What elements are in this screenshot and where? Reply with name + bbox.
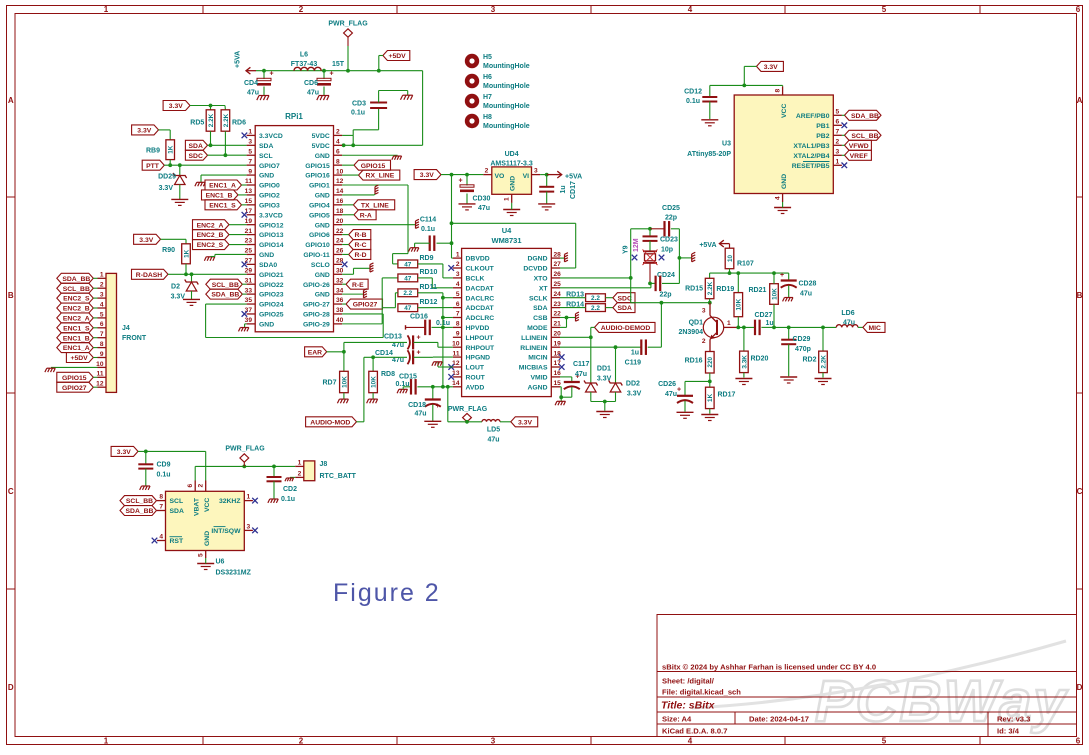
- RPi1 pin 8 GPIO15: [334, 164, 343, 166]
- zener diode DD2: [615, 347, 617, 383]
- capacitor CD26: [684, 381, 686, 395]
- resistor R107: [725, 248, 734, 269]
- svg-text:5: 5: [456, 291, 460, 298]
- RPi1 pin 39 GND: [247, 323, 256, 325]
- svg-text:GPIO23: GPIO23: [259, 292, 284, 299]
- U4 pin 3 BCLK: [453, 277, 462, 279]
- U4 pin 22 CSB: [551, 317, 560, 319]
- svg-text:MountingHole: MountingHole: [483, 123, 530, 130]
- J4 pin 5: [98, 317, 107, 319]
- svg-text:2N3904: 2N3904: [678, 329, 703, 336]
- svg-text:2: 2: [456, 261, 460, 268]
- resistor RD11: [398, 289, 418, 297]
- svg-text:H6: H6: [483, 74, 492, 81]
- svg-text:35: 35: [245, 297, 253, 304]
- svg-text:21: 21: [245, 228, 253, 235]
- svg-text:8: 8: [456, 321, 460, 328]
- svg-text:3: 3: [248, 139, 252, 146]
- global label PTT: [142, 160, 164, 170]
- svg-text:7: 7: [456, 311, 460, 318]
- svg-text:H7: H7: [483, 94, 492, 101]
- svg-text:LD6: LD6: [841, 310, 854, 317]
- svg-text:VCC: VCC: [781, 104, 788, 118]
- ground CD26: [677, 411, 694, 413]
- svg-text:SDA0: SDA0: [259, 262, 277, 269]
- svg-text:11: 11: [453, 350, 460, 357]
- svg-text:XTO: XTO: [534, 276, 548, 283]
- no-connect U4 pin17: [559, 364, 565, 370]
- global label ENC2_B: [193, 230, 230, 240]
- svg-text:2.2K: 2.2K: [707, 281, 714, 295]
- svg-text:GPIO4: GPIO4: [309, 202, 330, 209]
- RPi1 pin 19 GPIO12: [247, 224, 256, 226]
- svg-text:CLKOUT: CLKOUT: [466, 266, 495, 273]
- svg-text:RD5: RD5: [190, 120, 204, 127]
- U4 pin 18 MICIN: [551, 356, 560, 358]
- svg-text:0.1u: 0.1u: [421, 226, 435, 233]
- ground CD18: [424, 420, 441, 422]
- svg-text:1: 1: [836, 159, 840, 166]
- svg-text:2.2K: 2.2K: [208, 113, 215, 127]
- svg-text:34: 34: [336, 287, 344, 294]
- svg-text:GPIO25: GPIO25: [259, 312, 284, 319]
- global label +5DV (top): [383, 51, 410, 61]
- mounting hole H8: [465, 114, 479, 128]
- no-connect U3 RESET: [842, 163, 848, 169]
- svg-text:RD15: RD15: [685, 286, 703, 293]
- global label TX_LINE: [353, 200, 394, 210]
- svg-text:LHPOUT: LHPOUT: [466, 335, 495, 342]
- svg-text:30: 30: [336, 267, 344, 274]
- wire RLINEIN: [560, 346, 641, 348]
- svg-text:C119: C119: [625, 360, 641, 367]
- svg-text:3.3V: 3.3V: [518, 419, 532, 426]
- svg-text:AGND: AGND: [527, 384, 547, 391]
- svg-text:GPIO-11: GPIO-11: [303, 252, 330, 259]
- ground for D2: [183, 298, 200, 300]
- svg-text:MICBIAS: MICBIAS: [519, 365, 548, 372]
- svg-text:15: 15: [245, 198, 253, 205]
- connector RPi1 body: [255, 126, 333, 332]
- svg-text:HPGND: HPGND: [466, 355, 491, 362]
- U4 pin 9 LHPOUT: [453, 336, 462, 338]
- svg-text:RD6: RD6: [232, 120, 246, 127]
- RPi1 pin 23 GPIO14: [247, 244, 256, 246]
- svg-text:ENC2_S: ENC2_S: [63, 296, 90, 303]
- ground for RPi pin39: [245, 323, 247, 325]
- svg-text:PWR_FLAG: PWR_FLAG: [328, 21, 368, 28]
- wire RD6 to SCL: [224, 131, 226, 155]
- svg-text:SDA: SDA: [259, 143, 273, 150]
- wire XTO to RD15/QD1: [631, 302, 710, 304]
- U6 pin3 INT/SQW: [244, 529, 253, 531]
- svg-text:7: 7: [836, 129, 840, 136]
- capacitor CD3: [353, 129, 378, 131]
- svg-text:SCLO: SCLO: [311, 262, 330, 269]
- svg-text:GPIO24: GPIO24: [259, 302, 284, 309]
- mounting hole H6: [465, 74, 479, 88]
- J4 pin 9: [98, 357, 107, 359]
- wire 3.3V to VO: [441, 174, 483, 176]
- svg-text:R-B: R-B: [354, 232, 366, 239]
- svg-text:CD29: CD29: [793, 336, 811, 343]
- svg-text:5VDC: 5VDC: [312, 133, 330, 140]
- svg-text:R-D: R-D: [354, 252, 366, 259]
- svg-text:220: 220: [707, 356, 714, 367]
- svg-text:3: 3: [836, 149, 840, 156]
- svg-text:CD13: CD13: [384, 334, 402, 341]
- svg-text:RD9: RD9: [420, 255, 434, 262]
- svg-text:22p: 22p: [665, 215, 677, 222]
- svg-text:GPIO10: GPIO10: [305, 242, 330, 249]
- svg-text:4: 4: [456, 281, 460, 288]
- svg-text:47u: 47u: [247, 90, 259, 97]
- global label ENC1_S (J4): [57, 323, 94, 333]
- wire GPIO-28 pin38: [342, 313, 383, 315]
- svg-text:CD6: CD6: [304, 80, 318, 87]
- wire EAR node: [327, 351, 344, 353]
- svg-text:40: 40: [336, 317, 344, 324]
- svg-text:GND: GND: [315, 272, 330, 279]
- svg-text:+: +: [416, 349, 420, 356]
- RPi1 pin 28 SCLO: [334, 263, 343, 265]
- resistor RD17: [706, 387, 715, 408]
- wire audio line to MIC: [774, 326, 836, 328]
- svg-text:C117: C117: [573, 361, 589, 368]
- J4 pin 6: [98, 327, 107, 329]
- U4 pin 15 AGND: [551, 386, 560, 388]
- svg-text:26: 26: [554, 271, 562, 278]
- global label GPIO15 (J4): [57, 372, 94, 382]
- ground CD30: [459, 203, 476, 205]
- svg-text:12: 12: [452, 360, 460, 367]
- svg-text:1: 1: [104, 737, 109, 746]
- svg-text:U4: U4: [502, 226, 512, 235]
- U3 pin 3 XTAL2/PB4: [833, 154, 842, 156]
- zener diode DD29: [179, 165, 181, 175]
- U4 pin 16 VMID: [551, 376, 560, 378]
- svg-text:6: 6: [836, 119, 840, 126]
- svg-text:VMID: VMID: [531, 375, 548, 382]
- svg-text:GPIO0: GPIO0: [259, 183, 280, 190]
- mcu U3 body: [734, 95, 833, 194]
- U6 pin4 RST: [157, 540, 166, 542]
- power symbol +5VA (left arrow): [246, 70, 256, 72]
- svg-text:SDC: SDC: [189, 153, 203, 160]
- svg-text:GPIO16: GPIO16: [305, 173, 330, 180]
- U3 pin8 VCC: [782, 86, 784, 95]
- resistor RD5: [206, 110, 215, 131]
- svg-text:5: 5: [882, 5, 887, 14]
- svg-text:DACDAT: DACDAT: [466, 285, 495, 292]
- svg-text:1: 1: [727, 320, 731, 327]
- svg-text:20: 20: [554, 331, 562, 338]
- svg-text:+: +: [416, 335, 420, 342]
- svg-text:+5VA: +5VA: [699, 242, 716, 249]
- svg-text:GPIO15: GPIO15: [305, 163, 330, 170]
- svg-text:H8: H8: [483, 114, 492, 121]
- global label SCL_BB (U3): [845, 130, 882, 140]
- capacitor CD30: [466, 175, 468, 186]
- svg-text:VBAT: VBAT: [194, 497, 201, 516]
- svg-text:RD12: RD12: [420, 299, 438, 306]
- svg-text:6: 6: [336, 148, 340, 155]
- wire DCVDD feed: [452, 222, 576, 224]
- RPi1 pin 11 GPIO0: [247, 184, 256, 186]
- U4 pin 6 ADCDAT: [453, 307, 462, 309]
- svg-text:ENC1_B: ENC1_B: [206, 193, 233, 200]
- svg-text:3.3V: 3.3V: [117, 449, 131, 456]
- svg-text:11: 11: [245, 178, 252, 185]
- svg-text:GPIO5: GPIO5: [309, 212, 330, 219]
- global label MIC: [863, 322, 885, 332]
- svg-text:3: 3: [534, 168, 538, 175]
- svg-text:Y9: Y9: [623, 245, 630, 254]
- svg-text:15: 15: [554, 380, 562, 387]
- RPi1 pin 32 GPIO-26: [334, 283, 343, 285]
- svg-text:RD19: RD19: [716, 286, 734, 293]
- svg-text:10K: 10K: [341, 376, 348, 388]
- svg-text:GPIO15: GPIO15: [62, 375, 87, 382]
- svg-text:1: 1: [298, 459, 302, 466]
- svg-text:RD17: RD17: [718, 392, 736, 399]
- svg-text:GPIO13: GPIO13: [259, 232, 284, 239]
- svg-text:10: 10: [452, 340, 460, 347]
- global label EAR: [305, 347, 327, 357]
- global label AUDIO-DEMOD: [595, 322, 656, 332]
- svg-text:33: 33: [245, 287, 253, 294]
- svg-text:+: +: [329, 71, 333, 78]
- U4 pin 17 MICBIAS: [551, 366, 560, 368]
- svg-text:RD8: RD8: [381, 371, 395, 378]
- svg-text:QD1: QD1: [689, 320, 704, 327]
- svg-text:GND: GND: [781, 174, 788, 189]
- svg-text:47u: 47u: [843, 320, 855, 327]
- svg-text:29: 29: [245, 267, 253, 274]
- ground U3: [774, 207, 791, 209]
- svg-text:WM8731: WM8731: [491, 236, 521, 245]
- global label R-C: [349, 240, 371, 250]
- svg-text:D: D: [8, 683, 14, 692]
- no-connect pin17: [242, 212, 248, 218]
- capacitor CD28: [788, 273, 790, 280]
- ground RPi pin34: [342, 293, 363, 295]
- U3 pin 1 RESET/PB5: [833, 164, 842, 166]
- svg-text:XT: XT: [539, 285, 549, 292]
- svg-text:1: 1: [100, 272, 104, 279]
- wire 5V rail: [256, 70, 423, 72]
- U3 pin 6 PB1: [833, 124, 842, 126]
- global label GPIO27 (RPi): [346, 299, 383, 309]
- svg-text:CD9: CD9: [157, 462, 171, 469]
- svg-text:GPIO15: GPIO15: [361, 163, 386, 170]
- svg-text:15T: 15T: [332, 61, 345, 68]
- J4 pin 7: [98, 337, 107, 339]
- svg-text:47u: 47u: [392, 357, 404, 364]
- svg-text:AREF/PB0: AREF/PB0: [796, 113, 830, 120]
- RPi1 pin 20 GND: [334, 224, 343, 226]
- no-connect U6 RST: [152, 538, 158, 544]
- ground RD8: [372, 393, 374, 399]
- svg-text:24: 24: [336, 238, 344, 245]
- svg-text:CD17: CD17: [570, 181, 577, 199]
- mounting hole H5: [465, 54, 479, 68]
- svg-text:3.3V: 3.3V: [139, 237, 153, 244]
- capacitor CD17: [546, 175, 548, 187]
- svg-text:Title: sBitx: Title: sBitx: [661, 700, 716, 712]
- svg-text:1: 1: [456, 251, 460, 258]
- wire 3.3V to RB9: [159, 129, 171, 131]
- no-connect U4 pin18: [559, 354, 565, 360]
- wire AUDIO-DEMOD to LLINEIN: [591, 326, 595, 328]
- svg-text:6: 6: [1076, 5, 1081, 14]
- svg-text:12M: 12M: [633, 238, 640, 252]
- svg-text:R90: R90: [162, 247, 175, 254]
- ground for DD29: [171, 198, 188, 200]
- svg-text:2.2: 2.2: [591, 305, 600, 312]
- capacitor CD18: [432, 387, 434, 399]
- svg-text:DBVDD: DBVDD: [466, 256, 490, 263]
- U3 pin 2 XTAL1/PB3: [833, 144, 842, 146]
- wire RB9 to PTT net: [169, 160, 171, 166]
- svg-text:25: 25: [245, 248, 253, 255]
- svg-text:0.1u: 0.1u: [157, 472, 171, 479]
- ground CSB/MODE: [560, 317, 567, 319]
- svg-text:3.3V: 3.3V: [159, 185, 174, 192]
- wire 3.3V to R90: [161, 238, 187, 240]
- no-connect U6 32KHZ: [252, 498, 258, 504]
- svg-text:RPi1: RPi1: [285, 112, 303, 121]
- svg-text:13: 13: [452, 370, 460, 377]
- svg-text:GPIO12: GPIO12: [259, 222, 284, 229]
- svg-text:28: 28: [336, 258, 344, 265]
- transistor QD1 2N3904: [703, 317, 723, 337]
- svg-text:8: 8: [336, 158, 340, 165]
- svg-text:Rev: v3.3: Rev: v3.3: [997, 715, 1030, 724]
- global label ENC2_A (J4): [57, 313, 94, 323]
- svg-text:RHPOUT: RHPOUT: [466, 345, 496, 352]
- power label 3.3V (R90): [134, 234, 161, 244]
- audio codec U4 body: [462, 248, 552, 396]
- svg-text:CD26: CD26: [658, 381, 676, 388]
- inductor L6: [294, 67, 321, 70]
- global label RX_LINE: [359, 170, 400, 180]
- svg-text:32KHZ: 32KHZ: [219, 498, 241, 505]
- wire base node: [737, 317, 739, 328]
- svg-text:5: 5: [248, 148, 252, 155]
- J8 pin2: [295, 476, 304, 478]
- RPi1 pin 21 GPIO13: [247, 234, 256, 236]
- ground RPi pin20: [342, 224, 415, 226]
- svg-text:47: 47: [404, 305, 412, 312]
- svg-text:GND: GND: [510, 176, 517, 191]
- svg-text:GPIO3: GPIO3: [259, 202, 280, 209]
- capacitor C117: [560, 376, 572, 378]
- ground RD17: [709, 409, 711, 414]
- RPi1 pin 22 GPIO6: [334, 234, 343, 236]
- ground J8 pin2: [290, 476, 295, 478]
- svg-text:3: 3: [702, 308, 706, 315]
- resistor RD19: [734, 293, 743, 317]
- svg-text:22: 22: [336, 228, 344, 235]
- svg-text:1u: 1u: [560, 185, 567, 193]
- svg-text:SCL_BB: SCL_BB: [851, 133, 878, 140]
- ground UD4: [503, 209, 520, 211]
- svg-text:CD30: CD30: [473, 196, 491, 203]
- svg-text:8: 8: [775, 89, 782, 93]
- RPi1 pin 4 5VDC: [334, 144, 343, 146]
- svg-text:SDA_BB: SDA_BB: [211, 292, 239, 299]
- svg-text:CD18: CD18: [408, 402, 426, 409]
- power label 3.3V (RD5/RD6 pullups): [163, 101, 190, 111]
- svg-text:2: 2: [836, 139, 840, 146]
- junction: [322, 69, 326, 73]
- no-connect U4 pin13: [448, 374, 454, 380]
- no-connect pin27: [242, 262, 248, 268]
- ground RPi pin30: [342, 273, 353, 275]
- svg-text:Figure 2: Figure 2: [333, 579, 441, 607]
- svg-text:7: 7: [159, 504, 163, 511]
- svg-text:3: 3: [491, 5, 496, 14]
- global label ENC2_B (J4): [57, 303, 94, 313]
- ground RD7: [343, 393, 345, 399]
- svg-text:9: 9: [248, 168, 252, 175]
- svg-text:CD28: CD28: [799, 281, 817, 288]
- svg-text:SCL_BB: SCL_BB: [212, 282, 239, 289]
- svg-text:25: 25: [554, 281, 562, 288]
- U4 pin 5 DACLRC: [453, 297, 462, 299]
- U4 pin 26 XTO: [551, 277, 560, 279]
- global label VREF: [845, 150, 872, 160]
- svg-text:3.3V: 3.3V: [137, 128, 151, 135]
- svg-text:GND: GND: [315, 153, 330, 160]
- capacitor CD4: [263, 71, 265, 79]
- wire RD11 left jog: [395, 292, 398, 294]
- svg-text:9: 9: [100, 351, 104, 358]
- svg-text:Date: 2024-04-17: Date: 2024-04-17: [749, 715, 809, 724]
- ground CD29: [780, 376, 797, 378]
- svg-text:ADCDAT: ADCDAT: [466, 305, 495, 312]
- ground for RPi pin25: [215, 253, 247, 255]
- svg-text:3: 3: [100, 292, 104, 299]
- svg-text:D: D: [1077, 683, 1083, 692]
- global label SDA_BB (U3): [845, 110, 882, 120]
- RPi1 pin 14 GND: [334, 194, 343, 196]
- svg-text:SDA_BB: SDA_BB: [62, 276, 90, 283]
- global label SDC: [185, 150, 207, 160]
- svg-text:2: 2: [299, 737, 304, 746]
- resistor RD10: [398, 274, 418, 282]
- svg-text:SDA: SDA: [618, 305, 632, 312]
- svg-text:ATtiny85-20P: ATtiny85-20P: [687, 151, 731, 158]
- wire AVDD to 3.3V via LD5: [447, 387, 449, 422]
- svg-text:0.1u: 0.1u: [351, 110, 365, 117]
- J4 pin 4: [98, 307, 107, 309]
- svg-text:+: +: [435, 403, 439, 410]
- svg-text:VFWD: VFWD: [849, 143, 869, 150]
- svg-text:11: 11: [97, 371, 104, 378]
- svg-text:5: 5: [836, 109, 840, 116]
- svg-text:B: B: [1077, 291, 1083, 300]
- crystal Y9 (DNP): [643, 250, 657, 252]
- U6 pin8 SCL: [157, 500, 166, 502]
- U6 pin5 GND: [205, 551, 207, 559]
- svg-text:GND: GND: [259, 252, 274, 259]
- connector J4 body: [106, 273, 117, 392]
- no-connect pin37: [242, 311, 248, 317]
- U4 pin 12 LOUT: [453, 366, 462, 368]
- RPi1 pin 27 SDA0: [247, 263, 256, 265]
